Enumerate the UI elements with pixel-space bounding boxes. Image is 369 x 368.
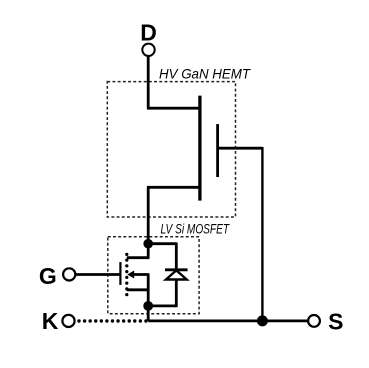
- wire: diode bottom vertical: [175, 280, 178, 308]
- wire: bottom source rail: [148, 319, 308, 322]
- node: MOSFET drain junction dot: [143, 239, 153, 249]
- MOSFET Q2 source lead: [127, 288, 150, 291]
- diode D1 cathode bar: [165, 268, 188, 271]
- wire: diode bottom to source node: [148, 304, 176, 307]
- wire: diode top vertical: [175, 242, 178, 269]
- wire: G terminal to MOSFET gate: [76, 273, 121, 276]
- HEMT Q1 channel bar: [198, 96, 201, 201]
- svg-text:HV GaN HEMT: HV GaN HEMT: [159, 66, 251, 82]
- terminal K circle: [62, 315, 74, 327]
- HEMT Q1 gate bar: [216, 124, 219, 177]
- HV GaN HEMT enclosure (dashed box): [107, 82, 235, 217]
- terminal D circle: [142, 44, 154, 56]
- wire: HEMT gate to source rail (right vertical): [261, 147, 263, 321]
- svg-text:S: S: [328, 309, 343, 335]
- LV Si MOSFET enclosure (dashed box): [108, 237, 199, 314]
- wire: drain node to body diode top: [148, 242, 176, 245]
- svg-text:G: G: [39, 263, 57, 289]
- terminal S circle: [308, 315, 320, 327]
- MOSFET Q2 channel (dotted): [125, 254, 128, 294]
- diode D1 anode triangle: [166, 270, 187, 279]
- MOSFET Q2 bulk lead: [130, 273, 149, 276]
- HEMT Q1 source lead: [147, 186, 202, 189]
- MOSFET Q2 drain lead: [127, 256, 150, 259]
- svg-text:LV Si MOSFET: LV Si MOSFET: [161, 222, 231, 237]
- wire: MOSFET bulk/source to K rail (right vertical): [147, 275, 150, 321]
- MOSFET Q2 drain stub wire: [147, 244, 150, 258]
- wire: K terminal dotted kelvin connection: [79, 319, 146, 322]
- svg-text:D: D: [140, 19, 157, 45]
- MOSFET Q2 gate plate: [119, 262, 121, 285]
- wire: HEMT source down to MOSFET drain node: [147, 187, 150, 243]
- svg-text:K: K: [42, 308, 59, 334]
- node: MOSFET source junction dot: [143, 301, 153, 311]
- HEMT Q1 drain lead: [147, 107, 202, 110]
- wire: D terminal down to HEMT drain: [147, 56, 150, 108]
- HEMT Q1 gate lead: [218, 147, 263, 150]
- MOSFET Q2 bulk arrow (points to channel): [127, 271, 134, 279]
- node: source rail junction dot: [257, 315, 268, 326]
- terminal G circle: [63, 268, 75, 280]
